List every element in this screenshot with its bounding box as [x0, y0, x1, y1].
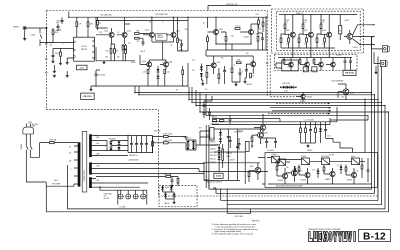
- diode D413 chain: [218, 147, 221, 150]
- node junction: [95, 135, 96, 136]
- resistor R502: [298, 167, 300, 171]
- wire AC to fuse: [30, 143, 49, 158]
- capacitor C405 main filter: [130, 144, 133, 145]
- node junction: [388, 111, 389, 112]
- wire protection rails top: [267, 158, 365, 162]
- diode D411: [219, 132, 222, 135]
- pin board edge P6 right: [266, 49, 268, 51]
- node junction: [134, 92, 135, 93]
- resistor R121 driver load: [177, 38, 179, 43]
- svg-text:2SC458: 2SC458: [347, 180, 353, 182]
- svg-text:47: 47: [171, 45, 173, 47]
- svg-text:LED: LED: [342, 97, 345, 99]
- wire stage output drop: [178, 17, 189, 51]
- resistor R504: [345, 167, 347, 171]
- node junction: [265, 17, 266, 18]
- svg-text:6-304: 6-304: [322, 20, 326, 22]
- relay RY401: [278, 159, 286, 165]
- wire bus 11: [212, 121, 301, 123]
- ground C410: [170, 185, 173, 188]
- wire ladder vertical 3: [218, 144, 220, 172]
- svg-text:R441 1K: R441 1K: [210, 138, 215, 140]
- svg-text:B-12: B-12: [363, 232, 386, 243]
- node junction: [371, 92, 372, 93]
- diode D405 sub bridge: [187, 141, 190, 144]
- svg-text:6-304: 6-304: [304, 20, 308, 22]
- svg-text:240: 240: [69, 160, 72, 162]
- svg-text:8Ω 16Ω: 8Ω 16Ω: [104, 198, 110, 200]
- capacitor C417 ladder: [227, 137, 230, 138]
- svg-text:Q106: Q106: [168, 61, 172, 63]
- svg-text:4-016: 4-016: [79, 67, 84, 69]
- transformer T401 primary taps: [74, 146, 78, 176]
- wire transformer bottom taps right: [96, 183, 148, 187]
- svg-text:2SD313: 2SD313: [226, 153, 232, 155]
- resistor R311: [283, 60, 285, 64]
- wire secondary to bridge: [96, 136, 128, 156]
- svg-text:10/16V: 10/16V: [131, 62, 136, 64]
- dashed outline display board outer: [271, 9, 363, 53]
- diode D102 bias: [157, 76, 160, 79]
- svg-text:P-0313-P-1177: P-0313-P-1177: [84, 170, 86, 181]
- svg-text:560: 560: [221, 58, 224, 60]
- wire signal bus 4 nested loop: [192, 66, 382, 205]
- arrow interconnect lower: [328, 113, 330, 115]
- diode D401 bridge: [110, 142, 113, 145]
- AC plug prong right: [29, 123, 31, 127]
- transistor Q502: [305, 172, 310, 177]
- svg-text:2SC945: 2SC945: [307, 97, 313, 99]
- node junction: [95, 155, 96, 156]
- svg-text:1K: 1K: [337, 165, 339, 167]
- transformer secondary taps s2: [92, 164, 97, 174]
- svg-text:100/16V: 100/16V: [244, 37, 250, 39]
- capacitor C408 main filter: [145, 144, 148, 145]
- wire second stage rails: [206, 17, 266, 56]
- wire input rail vertical: [40, 28, 53, 43]
- svg-text:GRY: GRY: [97, 180, 100, 182]
- pin board edge P4: [46, 72, 48, 74]
- relay RY504 contact: [352, 158, 360, 165]
- capacitor C422 column: [324, 130, 327, 131]
- dashed outline LED board: [159, 185, 197, 206]
- dashed outline power amp board right corner: [377, 190, 379, 197]
- connector CN301: [382, 46, 387, 52]
- node junction: [173, 17, 174, 18]
- capacitor C311: [344, 61, 347, 62]
- svg-text:RY 6-004: RY 6-004: [268, 150, 274, 152]
- transistor Q103 driver: [149, 32, 154, 37]
- svg-text:2SD556: 2SD556: [157, 37, 163, 39]
- wire IC feedback loop: [53, 48, 74, 55]
- svg-text:47K: 47K: [259, 29, 262, 31]
- svg-text:B56: B56: [251, 146, 254, 148]
- diode D502: [317, 171, 320, 174]
- node junction: [195, 105, 196, 106]
- capacitor C418 ladder: [236, 146, 239, 147]
- ground output return: [89, 88, 92, 91]
- capacitor C414: [265, 142, 268, 143]
- transformer T401 secondary winding 2: [89, 162, 92, 174]
- svg-text:47K: 47K: [256, 33, 259, 35]
- IC regulator block 2: [245, 141, 249, 151]
- node junction: [215, 43, 216, 44]
- svg-text:C441 47/50: C441 47/50: [210, 155, 217, 157]
- wire meter output top: [353, 25, 374, 35]
- pin board edge P7 right: [266, 62, 268, 64]
- svg-text:RT: RT: [339, 30, 341, 32]
- transistor Q501: [282, 173, 287, 178]
- svg-text:560: 560: [116, 50, 119, 52]
- svg-text:1K: 1K: [118, 32, 120, 34]
- wire reg top rail: [214, 128, 261, 130]
- ground Q108 emitter: [243, 80, 246, 83]
- transistor Q404 top: [260, 125, 265, 130]
- wire column top rail: [301, 107, 338, 122]
- wire connector feed upper: [372, 37, 383, 49]
- svg-text:Q103: Q103: [145, 30, 149, 32]
- svg-text:C+: C+: [162, 22, 164, 24]
- sheet number plate B-12: [359, 229, 391, 241]
- svg-text:B841 2SD313 1000/10V: B841 2SD313 1000/10V: [206, 182, 222, 184]
- label small parts bottom left regulator: [212, 120, 216, 122]
- node junction: [199, 111, 200, 112]
- wire AC lead right: [29, 134, 31, 146]
- capacitor C407 main filter: [140, 144, 143, 145]
- svg-text:PB-1154: PB-1154: [345, 72, 354, 75]
- transistor Q108: [251, 62, 256, 67]
- svg-text:C25: C25: [192, 60, 195, 62]
- wire regulator input: [200, 131, 210, 145]
- wire display to switch board column 2: [310, 48, 312, 58]
- LED D601: [161, 187, 164, 190]
- resistor R309 inter: [324, 38, 326, 42]
- svg-text:117: 117: [69, 146, 71, 148]
- svg-text:330: 330: [106, 57, 109, 59]
- svg-text:6-304: 6-304: [286, 20, 290, 22]
- svg-text:4-004: 4-004: [345, 20, 349, 22]
- svg-text:6-004: 6-004: [351, 156, 355, 158]
- svg-text:1.2K: 1.2K: [49, 45, 52, 47]
- svg-text:6-004 F: 6-004 F: [272, 154, 277, 156]
- wire signal bus 6 long loop: [46, 92, 388, 212]
- diode D412: [219, 138, 222, 141]
- wire bus 10: [212, 118, 330, 125]
- wire driver rail: [139, 34, 149, 39]
- wire signal bus 5 long loop: [68, 90, 386, 209]
- node junction: [151, 17, 152, 18]
- svg-text:D301 D302: D301 D302: [282, 83, 290, 85]
- node junction: [188, 99, 189, 100]
- svg-text:R31 47: R31 47: [141, 51, 146, 53]
- transformer T401 primary winding: [78, 142, 81, 186]
- svg-text:Q302: Q302: [304, 30, 308, 32]
- svg-text:8200/50V x2: 8200/50V x2: [129, 155, 138, 157]
- svg-text:0.47: 0.47: [192, 70, 195, 72]
- svg-text:4.7K: 4.7K: [312, 169, 315, 171]
- wire signal bus 3 nested loop: [189, 57, 378, 201]
- capacitor C416: [229, 119, 232, 120]
- wire AC lead left: [25, 134, 27, 146]
- arrow interconnect solid 1: [329, 107, 331, 109]
- transistor Q101: [109, 32, 114, 37]
- node junction: [203, 171, 204, 172]
- dashed outline main amp board right edge: [266, 11, 268, 97]
- ground input shield: [23, 37, 26, 40]
- wire meter output mid: [353, 35, 374, 37]
- svg-text:35V: 35V: [199, 128, 202, 130]
- svg-text:Q301: Q301: [286, 30, 290, 32]
- svg-text:F401 4A: F401 4A: [50, 139, 57, 142]
- capacitor C421 column: [309, 130, 312, 131]
- node junction: [377, 99, 378, 100]
- ground second stage: [234, 83, 237, 86]
- svg-text:1.2K: 1.2K: [286, 44, 289, 46]
- capacitor C145 second stage: [239, 73, 242, 74]
- resistor R116 emitter: [114, 49, 116, 54]
- svg-text:100/50V: 100/50V: [215, 145, 220, 147]
- svg-text:C45: C45: [256, 14, 259, 16]
- svg-text:220: 220: [69, 152, 72, 154]
- svg-text:2-240-2 F: 2-240-2 F: [336, 55, 343, 57]
- capacitor C131: [223, 71, 226, 72]
- dashed outline main amp board right edge inner: [270, 55, 295, 97]
- wire rail to second stage: [188, 17, 266, 28]
- svg-text:B·F: B·F: [286, 22, 288, 24]
- transformer T401 core: [82, 132, 87, 193]
- speaker terminal 4: [141, 194, 146, 199]
- dashed outline display board inner: [276, 11, 360, 50]
- resistor R505: [361, 165, 363, 169]
- node junction: [127, 135, 128, 136]
- wire sub bridge rails: [186, 137, 200, 151]
- wire meter output bottom: [353, 39, 374, 45]
- resistor R137: [207, 37, 209, 42]
- svg-text:1K: 1K: [234, 65, 236, 67]
- resistor R262 edge: [262, 22, 264, 26]
- transistor Q306: [305, 62, 310, 67]
- fuse F403: [164, 142, 169, 144]
- connector CN302: [380, 60, 385, 66]
- node input lower: [46, 42, 47, 43]
- speaker terminal box: [118, 190, 147, 204]
- wire rail V+ second: [96, 17, 108, 28]
- trim pot RT-1 box: [339, 26, 342, 34]
- ground mid right: [66, 75, 69, 78]
- node junction: [215, 17, 216, 18]
- node junction: [374, 94, 375, 95]
- board label PB-1152: [81, 93, 95, 99]
- wire display emitter bus: [281, 46, 335, 48]
- node junction: [95, 85, 96, 86]
- dashed outline power section divider vertical: [158, 110, 160, 196]
- svg-text:4.7K: 4.7K: [246, 53, 249, 55]
- pin board edge P2: [46, 43, 48, 45]
- label board 4-016: [77, 65, 87, 70]
- svg-text:RED: RED: [97, 137, 100, 139]
- relay RY502 contact: [302, 158, 310, 165]
- diode D104: [200, 73, 203, 76]
- svg-text:0.5: 0.5: [149, 22, 151, 24]
- logo wordmark: [309, 232, 356, 242]
- svg-text:C+: C+: [242, 70, 244, 72]
- wire display to switch board column 1: [292, 48, 294, 58]
- svg-text:C417: C417: [327, 136, 331, 138]
- svg-text:Q107: Q107: [217, 62, 221, 64]
- svg-text:Q109: Q109: [219, 29, 223, 31]
- svg-text:22K: 22K: [286, 167, 289, 169]
- switch S401 power left contact: [26, 146, 28, 182]
- resistor R501: [276, 166, 278, 170]
- wire protection bottom rail: [268, 183, 372, 185]
- resistor R138: [225, 37, 227, 42]
- svg-text:10P: 10P: [56, 22, 59, 24]
- svg-text:C17: C17: [128, 43, 131, 45]
- resistor R117: [122, 45, 124, 50]
- capacitor C103 feedback: [52, 55, 55, 56]
- svg-text:Q105: Q105: [142, 61, 146, 63]
- resistor R129 output sense: [182, 70, 184, 74]
- svg-text:2SB556: 2SB556: [157, 35, 163, 37]
- svg-text:B56 2SC458 100/10V 6-004 2: B56 2SC458 100/10V 6-004 2SC458 B56: [276, 186, 303, 188]
- resistor R141 second stage: [231, 68, 233, 73]
- relay RY302 contact: [312, 67, 317, 72]
- transistor Q106 output: [164, 62, 169, 67]
- diode D503: [340, 167, 343, 170]
- svg-text:B·F: B·F: [322, 22, 324, 24]
- wire B+ distribution top: [208, 6, 271, 11]
- node CN junction: [371, 37, 372, 38]
- svg-text:6-004: 6-004: [165, 187, 169, 189]
- resistor R107 IC bias: [60, 52, 62, 56]
- wire stack feed: [204, 96, 212, 101]
- resistor R139: [257, 37, 259, 42]
- node input rail: [46, 27, 47, 28]
- transformer T401 secondary winding 1: [89, 134, 92, 157]
- wire ladder vertical 4: [227, 129, 229, 180]
- capacitor C415: [274, 142, 277, 143]
- node junction: [381, 102, 382, 103]
- switch S401 power right contact: [30, 146, 32, 158]
- zener resistor tall R414: [222, 149, 224, 160]
- svg-text:Q401: Q401: [264, 132, 268, 134]
- svg-text:PUSH TML: PUSH TML: [104, 193, 112, 195]
- node junction: [187, 85, 188, 86]
- diode D103: [200, 67, 203, 70]
- capacitor C133: [245, 70, 248, 71]
- transistor Q102: [122, 32, 127, 37]
- wire LED bus: [163, 192, 175, 201]
- resistor R104: [87, 22, 89, 27]
- wire connector feed lower: [374, 52, 380, 64]
- transistor Q104 driver: [171, 32, 176, 37]
- speaker terminal 1: [118, 194, 123, 199]
- wire rail V+ lower rail: [96, 20, 188, 22]
- svg-text:C101: C101: [56, 20, 60, 22]
- transistor Q403 regulator: [292, 170, 298, 176]
- transformer T401 secondary winding 3: [89, 177, 92, 188]
- resistor R301: [284, 24, 286, 29]
- svg-text:Q402: Q402: [250, 166, 254, 168]
- dashed outline main amp board bottom edge: [46, 109, 158, 111]
- resistor network R25 box: [135, 33, 140, 35]
- wire right feed vertical: [371, 37, 373, 92]
- svg-text:C405 8200/50V: C405 8200/50V: [129, 160, 139, 162]
- resistor R416: [248, 172, 250, 177]
- switch S1 muting: [40, 28, 42, 46]
- resistor R134: [250, 73, 252, 78]
- transformer secondary taps s1: [92, 136, 97, 156]
- ground C103: [51, 60, 54, 63]
- wire bus 9 mid short: [212, 119, 280, 122]
- ground column: [306, 145, 309, 148]
- diode D414 chain: [218, 152, 221, 155]
- transistor Q110: [249, 30, 254, 35]
- svg-text:D SR-05: D SR-05: [183, 137, 189, 139]
- node junction: [68, 17, 69, 18]
- svg-text:2SD525 B+ 35V: 2SD525 B+ 35V: [226, 4, 238, 6]
- LED D604: [173, 194, 176, 197]
- svg-text:2SC458: 2SC458: [278, 180, 284, 182]
- svg-text:INPUT: INPUT: [13, 27, 20, 29]
- arrow interconnect solid 2: [329, 110, 331, 112]
- wire first stage emitter bus: [96, 47, 135, 61]
- svg-text:SR-2W10: SR-2W10: [109, 138, 116, 140]
- capacitor C411: [229, 141, 232, 142]
- svg-text:1-008: 1-008: [31, 34, 35, 36]
- wire lamp driver base: [338, 84, 346, 98]
- svg-text:C+ 4.7K 100/25: C+ 4.7K 100/25: [304, 119, 315, 121]
- wire not-used stub bracket: [227, 205, 250, 214]
- wire Q102 collector to rail: [125, 17, 130, 24]
- wire ladder vertical 6: [244, 152, 246, 184]
- capacitor C312: [349, 61, 352, 62]
- board label small: [214, 173, 223, 178]
- wire neutral into transformer primary: [46, 184, 78, 186]
- resistor R115 emitter: [110, 49, 112, 54]
- svg-text:R L GND: R L GND: [120, 207, 126, 209]
- transistor Q303: [327, 32, 332, 37]
- svg-text:330: 330: [117, 57, 120, 59]
- wire column bottom rail: [301, 142, 316, 144]
- transistor Q301: [290, 32, 295, 37]
- IC regulator block vertical: [210, 128, 214, 141]
- speaker terminal 3: [133, 194, 138, 199]
- svg-text:220: 220: [137, 41, 140, 43]
- transistor Q307: [319, 62, 324, 67]
- svg-text:4.7K: 4.7K: [99, 32, 102, 34]
- protection board outline: [265, 153, 378, 188]
- capacitor C115: [142, 42, 145, 43]
- capacitor C101: [61, 20, 64, 21]
- wire relay leads: [275, 161, 290, 163]
- svg-text:LED DISPLAY: LED DISPLAY: [332, 79, 345, 82]
- svg-text:2-240-2: 2-240-2: [353, 47, 358, 49]
- wire filter rails: [128, 136, 153, 153]
- resistor R101 input: [52, 30, 54, 34]
- wire ladder vertical 1: [205, 125, 207, 188]
- svg-text:NOT USED: NOT USED: [235, 216, 244, 218]
- svg-text:P-2: P-2: [205, 89, 207, 91]
- diode D415 chain: [218, 157, 221, 160]
- diode D421 column: [319, 129, 322, 132]
- ground display return: [374, 71, 377, 74]
- dashed outline power amp board bottom edge: [159, 195, 379, 197]
- capacitor C412: [238, 144, 241, 145]
- svg-text:C415 100/8: C415 100/8: [321, 156, 329, 158]
- wire input jack to board: [27, 27, 47, 29]
- relay RY301 contact: [303, 67, 308, 72]
